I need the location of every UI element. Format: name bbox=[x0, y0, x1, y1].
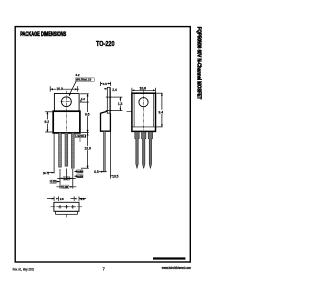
svg-text:(3.7): (3.7) bbox=[43, 171, 49, 175]
svg-text:5.08: 5.08 bbox=[62, 185, 68, 189]
svg-text:9.4: 9.4 bbox=[159, 110, 164, 114]
svg-text:13.0: 13.0 bbox=[84, 147, 91, 151]
svg-text:4.2: 4.2 bbox=[75, 73, 80, 77]
svg-text:0.5: 0.5 bbox=[94, 170, 99, 174]
svg-text:4.5: 4.5 bbox=[103, 82, 108, 86]
svg-text:1.32±0.1: 1.32±0.1 bbox=[75, 134, 87, 138]
svg-text:13.5: 13.5 bbox=[112, 174, 118, 178]
svg-text:1.3: 1.3 bbox=[118, 102, 123, 106]
svg-text:4.2: 4.2 bbox=[81, 97, 86, 101]
svg-text:9.2: 9.2 bbox=[45, 120, 50, 124]
svg-text:7: 7 bbox=[103, 266, 106, 271]
svg-text:Ø3.55±0.15: Ø3.55±0.15 bbox=[76, 78, 91, 82]
svg-text:9.6: 9.6 bbox=[85, 113, 90, 117]
svg-text:10.0: 10.0 bbox=[56, 87, 63, 91]
svg-text:TO-220: TO-220 bbox=[96, 39, 115, 48]
svg-text:PACKAGE DIMENSIONS: PACKAGE DIMENSIONS bbox=[20, 32, 66, 38]
svg-text:10.0: 10.0 bbox=[140, 86, 147, 90]
svg-text:www.fairchildsemi.com: www.fairchildsemi.com bbox=[161, 266, 191, 270]
svg-text:0.55: 0.55 bbox=[51, 180, 57, 184]
svg-text:2.4: 2.4 bbox=[112, 88, 117, 92]
svg-text:2.8: 2.8 bbox=[81, 197, 85, 201]
svg-text:Rev. A1, May 2002: Rev. A1, May 2002 bbox=[13, 268, 35, 272]
svg-text:FQP50N06 60V N-Channel MOSFET: FQP50N06 60V N-Channel MOSFET bbox=[196, 27, 202, 100]
svg-text:2.8: 2.8 bbox=[60, 197, 64, 201]
